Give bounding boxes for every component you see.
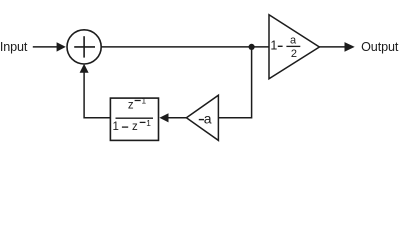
svg-text:z: z xyxy=(132,121,138,133)
svg-text:1: 1 xyxy=(113,121,119,133)
svg-text:1: 1 xyxy=(146,118,151,128)
svg-text:Output: Output xyxy=(361,40,399,54)
svg-text:2: 2 xyxy=(291,48,297,60)
svg-text:a: a xyxy=(204,110,212,126)
svg-text:Input: Input xyxy=(0,40,28,54)
svg-text:1: 1 xyxy=(141,96,146,106)
svg-text:z: z xyxy=(128,100,134,112)
svg-text:a: a xyxy=(290,35,297,47)
svg-text:1: 1 xyxy=(270,38,277,52)
